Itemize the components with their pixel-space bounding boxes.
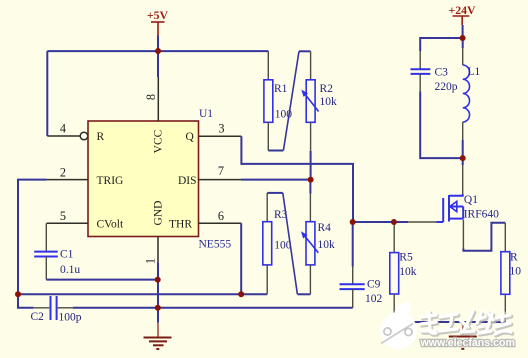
svg-text:R4: R4 — [318, 222, 332, 234]
svg-text:IRF640: IRF640 — [464, 209, 499, 221]
wire pin7 to R2/R4 column — [241, 179, 311, 181]
U1 pin 1 stub — [157, 237, 159, 263]
svg-text:TRIG: TRIG — [97, 175, 124, 187]
wire diagonal R1-R2 — [283, 51, 299, 150]
wire bottom rail y=293.4 — [18, 293, 267, 295]
svg-text:Q: Q — [186, 131, 195, 143]
U1 pin 6 stub — [199, 222, 242, 224]
U1 pin 5 stub — [47, 222, 88, 224]
resistor R — [501, 223, 510, 322]
ground symbol left — [144, 323, 172, 349]
svg-text:R: R — [510, 252, 518, 264]
node junction THR drop / bottom rail — [238, 291, 244, 297]
resistor R2 (pot) — [301, 51, 318, 150]
svg-text:GND: GND — [152, 201, 164, 226]
Q1 source pin — [462, 220, 464, 249]
capacitor C2 — [33, 296, 72, 320]
wire pin8 stem — [157, 51, 159, 77]
svg-text:VCC: VCC — [152, 129, 164, 153]
svg-text:2: 2 — [60, 165, 66, 179]
node junction R5 tap on gate wire — [391, 219, 397, 225]
svg-text:R1: R1 — [274, 83, 288, 95]
svg-text:R: R — [97, 131, 105, 143]
inductor L1 — [463, 38, 470, 158]
wire R3 top link — [267, 192, 283, 194]
svg-text:CVolt: CVolt — [97, 219, 124, 231]
svg-text:U1: U1 — [199, 108, 213, 120]
capacitor C9 — [340, 222, 365, 308]
wire +5V stem — [157, 36, 159, 52]
svg-text:8: 8 — [144, 94, 158, 100]
svg-text:10k: 10k — [399, 266, 417, 278]
ground symbol right — [449, 322, 477, 349]
wire top rail y=51 — [47, 50, 268, 52]
U1 pin 8 stub — [157, 77, 159, 121]
node junction DIS / R2 / R4 — [308, 177, 314, 183]
power +24V — [453, 16, 470, 25]
wire drain — [462, 158, 464, 165]
wire +24V to C3 — [420, 38, 463, 51]
wire left drop to pin4 — [46, 51, 48, 136]
wire bottom right y=322 — [394, 321, 505, 323]
U1 pin 4 stub with bubble — [47, 132, 87, 140]
resistor R4 (pot) — [301, 194, 318, 295]
svg-text:1: 1 — [144, 258, 158, 264]
wire pin6 THR drop to bottom rail — [240, 223, 242, 294]
svg-text:100p: 100p — [59, 312, 82, 324]
node junction +24V — [460, 35, 466, 41]
wire R4 bottom link — [297, 293, 310, 295]
svg-text:R5: R5 — [399, 251, 413, 263]
node junction C9 tap on gate wire — [350, 219, 356, 225]
svg-text:0.1u: 0.1u — [60, 264, 80, 276]
svg-text:7: 7 — [218, 164, 224, 178]
wire +24V stem — [462, 25, 464, 38]
wire pin3 net — [241, 136, 408, 222]
svg-text:+24V: +24V — [448, 3, 476, 17]
svg-text:C1: C1 — [60, 249, 74, 261]
wire junction down to R4 — [309, 180, 311, 194]
resistor R5 — [390, 222, 399, 322]
wire C3 bottom — [420, 92, 463, 159]
svg-text:5: 5 — [60, 209, 66, 223]
svg-text:C3: C3 — [435, 67, 449, 79]
wire pin1 down to ground — [157, 263, 159, 323]
wire diagonal R3-R4 — [283, 193, 298, 294]
svg-text:102: 102 — [365, 293, 383, 305]
svg-text:R2: R2 — [320, 83, 334, 95]
node junction ground stem / C2 wire — [155, 305, 161, 311]
wire C2 branch left — [18, 294, 33, 308]
wire pin2 net to left rail — [18, 180, 47, 295]
U1 pin 3 stub — [199, 135, 242, 137]
wire R2 bottom to junction — [310, 151, 312, 180]
svg-text:NE555: NE555 — [199, 239, 232, 251]
node junction pin1 / C1 wire — [155, 277, 161, 283]
svg-text:+5V: +5V — [147, 8, 169, 22]
svg-text:10: 10 — [510, 266, 522, 278]
svg-text:C2: C2 — [31, 311, 45, 323]
U1 pin 2 stub — [47, 179, 88, 181]
watermark chinese text — [422, 313, 512, 336]
wire source staircase — [463, 223, 505, 251]
node junction +5V rail — [155, 48, 161, 54]
watermark logo — [380, 301, 417, 349]
svg-text:THR: THR — [169, 219, 192, 231]
svg-text:6: 6 — [218, 209, 224, 223]
svg-text:4: 4 — [60, 122, 66, 136]
power +5V — [151, 22, 165, 36]
svg-text:Q1: Q1 — [464, 194, 478, 206]
svg-text:10k: 10k — [320, 96, 338, 108]
capacitor C1 — [34, 252, 58, 280]
svg-text:DIS: DIS — [178, 175, 197, 187]
node junction left rail corner — [15, 291, 21, 297]
wire C1 bottom to pin1 — [46, 279, 157, 281]
svg-text:220p: 220p — [435, 81, 458, 93]
svg-text:www.elecfans.com: www.elecfans.com — [420, 337, 515, 349]
wire R2 top link — [299, 50, 311, 52]
IC U1 NE555 body — [88, 121, 199, 237]
svg-text:C9: C9 — [367, 279, 381, 291]
capacitor C3 — [411, 51, 431, 92]
resistor R1 — [264, 51, 273, 151]
svg-text:L1: L1 — [468, 66, 481, 78]
wire gate tip — [437, 221, 444, 223]
resistor R3 — [263, 193, 272, 294]
node junction L1 / C3 bottom — [460, 155, 466, 161]
svg-text:3: 3 — [218, 121, 224, 135]
wire C2 to C9 bottom y=307.2 — [73, 307, 353, 309]
Q1 gate pin — [408, 221, 437, 223]
wire R1 bottom link — [268, 150, 283, 152]
svg-text:10k: 10k — [318, 239, 336, 251]
U1 pin 7 stub — [199, 179, 242, 181]
wire pin5 drop — [45, 223, 47, 251]
transistor Q1 IRF640 — [443, 194, 463, 222]
